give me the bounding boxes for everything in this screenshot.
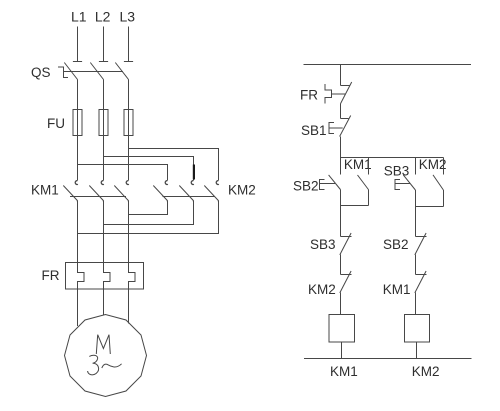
- wire KM2 pole3 output to phase1 column: [78, 201, 219, 234]
- thermal relay FR heater element 2: [104, 263, 111, 290]
- svg-text:KM2: KM2: [419, 157, 447, 172]
- wire right chain to SB2 NC: [415, 207, 417, 237]
- switch QS operating handle bracket: [58, 67, 68, 78]
- wire FR to motor phase 3: [128, 289, 130, 324]
- wire rail to SB2: [340, 158, 342, 175]
- KM2 NC contact blade: [340, 271, 351, 293]
- pushbutton SB3 button cap: [395, 180, 400, 190]
- control top rail: [304, 64, 472, 66]
- wire KM1 NC to KM2 coil: [415, 293, 417, 315]
- svg-text:KM1: KM1: [383, 282, 411, 297]
- thermal relay FR heater element 3: [129, 263, 136, 290]
- wire KM1 pole2 output down to FR: [103, 201, 105, 263]
- wire KM2 aux to join: [443, 190, 445, 207]
- wire rail to KM1 aux: [368, 158, 370, 175]
- svg-text:SB3: SB3: [310, 237, 336, 252]
- wire branch phase2 to KM2 pole2: [104, 157, 194, 181]
- contactor KM2 pole2 terminal hook: [191, 181, 194, 185]
- KM1 NC contact blade: [415, 271, 426, 293]
- contactor KM2 pole3 blade: [204, 186, 218, 202]
- FR NC contact trip actuator: [325, 84, 332, 104]
- pushbutton SB3 blade: [403, 175, 415, 190]
- KM2 NC contact upper stub: [341, 274, 352, 276]
- switch QS pole 2 blade: [90, 63, 103, 80]
- svg-text:KM1: KM1: [330, 364, 358, 379]
- fuse FU2 body: [99, 110, 108, 136]
- FR NC contact upper stub: [341, 85, 350, 87]
- wire L2 incoming: [103, 27, 105, 62]
- contactor KM1 pole1 blade: [63, 186, 77, 202]
- wire SB3 NC to KM2 NC: [340, 255, 342, 275]
- contactor KM1 pole3 terminal hook: [126, 181, 129, 185]
- motor digit 3: [88, 355, 99, 375]
- wire L1 incoming: [77, 27, 79, 62]
- wire KM2 NC to KM1 coil: [340, 293, 342, 315]
- FR NC contact blade: [341, 82, 352, 104]
- switch QS pole 1 blade: [64, 63, 77, 80]
- contactor KM2 linkage line: [163, 196, 215, 198]
- coil KM2 box: [405, 315, 430, 343]
- thermal relay FR box: [66, 263, 144, 290]
- wire KM2 pole1 output to phase3 column: [129, 201, 168, 215]
- pushbutton SB1 blade: [340, 116, 351, 137]
- wire FU to KM1 phase 3: [128, 136, 130, 181]
- fuse FU2 wire through: [103, 110, 105, 136]
- svg-text:L1: L1: [71, 9, 87, 25]
- svg-text:KM1: KM1: [31, 183, 59, 198]
- wire KM2 pole2 output to phase2 column: [104, 201, 194, 225]
- svg-text:KM2: KM2: [228, 183, 256, 198]
- svg-text:SB2: SB2: [293, 178, 319, 193]
- motor M body polygon: [65, 315, 147, 397]
- wire FU to KM1 phase 1: [77, 136, 79, 181]
- coil KM1 box: [329, 315, 355, 343]
- wire KM1 aux to join: [368, 190, 370, 206]
- contactor KM2 pole1 blade: [153, 186, 167, 202]
- svg-text:L3: L3: [120, 9, 136, 25]
- FR NC contact actuator link: [332, 93, 346, 95]
- wire FR contact to SB1: [340, 104, 342, 119]
- wire FR to motor phase 1: [77, 289, 79, 326]
- contactor KM2 pole2 blade: [179, 186, 193, 202]
- switch QS pole 1 fixed contact bar: [73, 61, 82, 63]
- contactor KM1 pole3 blade: [114, 186, 128, 202]
- motor tilde symbol: [102, 364, 122, 368]
- wire SB1 to branch rail: [340, 137, 342, 158]
- contactor KM2 pole3 terminal hook: [216, 181, 219, 185]
- svg-text:KM2: KM2: [308, 282, 336, 297]
- wire rail to FR contact: [340, 65, 342, 86]
- wire QS to FU phase 2: [103, 80, 105, 110]
- wire SB2 to join: [340, 190, 342, 206]
- pushbutton SB3 plunger link: [395, 183, 411, 185]
- svg-text:SB1: SB1: [301, 123, 327, 138]
- svg-text:FU: FU: [47, 116, 65, 131]
- switch QS pole 2 fixed contact bar: [99, 61, 108, 63]
- wire branch phase3 to KM2 pole3: [129, 149, 219, 181]
- wire QS to FU phase 3: [128, 80, 130, 110]
- wire rail to SB3: [415, 158, 417, 175]
- svg-text:SB2: SB2: [383, 237, 409, 252]
- switch QS pole 3 fixed contact bar: [124, 61, 133, 63]
- pushbutton SB1 button cap: [329, 123, 334, 134]
- wire KM2 coil to bottom rail: [416, 342, 418, 359]
- wire QS to FU phase 1: [77, 80, 79, 110]
- svg-text:QS: QS: [31, 65, 51, 80]
- fuse FU3 body: [124, 110, 133, 136]
- contactor KM1 linkage line: [70, 196, 126, 198]
- switch QS pole 3 blade: [115, 63, 128, 80]
- contactor KM1 pole2 terminal hook: [101, 181, 104, 185]
- fuse FU3 wire through: [128, 110, 130, 136]
- svg-text:FR: FR: [300, 88, 318, 103]
- thermal relay FR heater element 1: [78, 263, 85, 290]
- pushbutton SB2 plunger link: [320, 183, 336, 185]
- control branch rail: [341, 157, 444, 159]
- KM1 NC contact upper stub: [416, 274, 427, 276]
- svg-text:L2: L2: [95, 9, 111, 25]
- wire SB3 to join: [415, 190, 417, 207]
- svg-text:KM1: KM1: [344, 157, 372, 172]
- wire join rail right pair: [416, 206, 444, 208]
- SB3 NC contact blade: [340, 233, 351, 255]
- control bottom rail: [304, 358, 472, 360]
- pushbutton SB2 blade: [329, 175, 341, 190]
- wire rail to KM2 aux: [443, 158, 445, 175]
- pushbutton SB1 upper stub: [341, 118, 349, 120]
- wire KM1 coil to bottom rail: [341, 342, 343, 359]
- pushbutton SB2 button cap: [320, 180, 325, 190]
- wire FU to KM1 phase 2: [103, 136, 105, 181]
- fuse FU1 body: [73, 110, 82, 136]
- wire L3 incoming: [128, 27, 130, 62]
- contactor KM1 pole1 terminal hook: [75, 181, 78, 185]
- svg-text:SB3: SB3: [384, 164, 410, 179]
- switch QS linkage line: [64, 71, 124, 73]
- contactor KM1 aux NO blade: [358, 175, 369, 190]
- SB2 NC contact blade: [415, 233, 426, 255]
- svg-text:KM2: KM2: [412, 364, 440, 379]
- wire SB2 NC to KM1 NC: [415, 255, 417, 275]
- SB2 NC contact upper stub: [416, 236, 427, 238]
- contactor KM2 aux NO blade: [433, 175, 443, 190]
- wire KM1 pole3 output down to FR: [128, 201, 130, 263]
- wire left chain to SB3 NC: [340, 206, 342, 237]
- pushbutton SB1 plunger link: [329, 127, 343, 129]
- wire KM1 pole1 output down to FR: [77, 201, 79, 263]
- contactor KM1 pole2 blade: [89, 186, 103, 202]
- wire overdraw thick segment on KM2 pole2 drop: [193, 165, 195, 180]
- motor letter M: [96, 335, 110, 354]
- SB3 NC contact upper stub: [341, 236, 352, 238]
- contactor KM2 pole1 terminal hook: [165, 181, 168, 185]
- fuse FU1 wire through: [77, 110, 79, 136]
- wire FR to motor phase 2: [103, 289, 105, 315]
- svg-text:FR: FR: [42, 268, 60, 283]
- wire branch phase1 to KM2 pole1: [78, 165, 168, 181]
- wire join rail left pair: [341, 205, 369, 207]
